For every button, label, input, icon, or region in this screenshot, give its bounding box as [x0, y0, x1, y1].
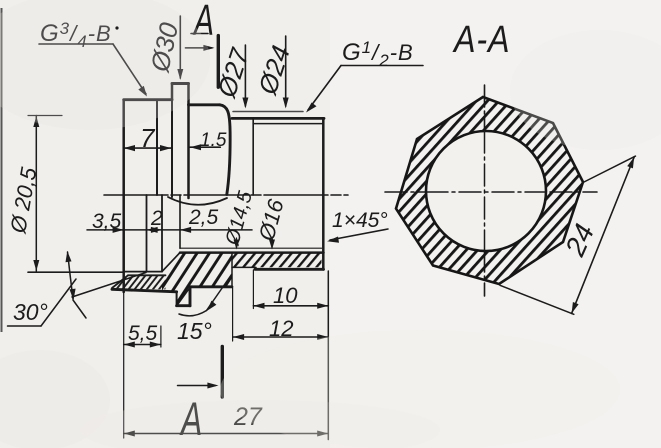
- svg-text:1.5: 1.5: [200, 130, 227, 151]
- svg-text:A-A: A-A: [452, 19, 510, 61]
- svg-text:2: 2: [150, 207, 163, 230]
- svg-text:10: 10: [273, 283, 298, 308]
- svg-text:1×45°: 1×45°: [332, 209, 388, 232]
- svg-text:5,5: 5,5: [128, 322, 158, 345]
- svg-text:7: 7: [140, 123, 156, 153]
- svg-text:30°: 30°: [13, 299, 48, 325]
- svg-text:2,5: 2,5: [188, 206, 219, 229]
- svg-text:12: 12: [269, 316, 293, 341]
- svg-text:15°: 15°: [177, 318, 212, 344]
- svg-text:3,5: 3,5: [92, 210, 122, 233]
